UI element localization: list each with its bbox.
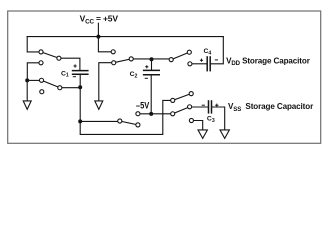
wire S8 throw to C3 minus <box>192 106 208 108</box>
wire S3 throw1 elbow from rail <box>98 37 111 52</box>
switch S4 contacts <box>169 50 192 66</box>
junction node GND1 <box>25 78 29 82</box>
capacitor C2 plates <box>143 70 160 74</box>
wire S3 throw2 elbow to ground 2 <box>99 63 112 101</box>
wire S1 throw2 to ground node <box>27 63 38 81</box>
ground GND1 left <box>23 101 31 109</box>
switch S8 contacts <box>171 105 194 123</box>
polarity marks C1 <box>73 64 77 76</box>
wire -5V branch up to S7 pole <box>163 100 171 114</box>
switch S6 contacts <box>118 112 140 127</box>
polarity marks C4 <box>200 59 218 62</box>
wire node GND1 to S2 throw1 <box>27 79 39 81</box>
ground GND3 under C3 switch <box>198 130 207 139</box>
switch S3 contacts <box>111 50 133 65</box>
wire S6 lever <box>120 121 138 125</box>
wire top VCC rail <box>27 36 223 38</box>
junction node C1 bottom <box>78 85 82 89</box>
wire S2 pole to C1 bottom node <box>60 87 80 89</box>
wire C2 top stub <box>151 59 153 70</box>
wire S7 lever <box>173 94 192 101</box>
wire S4 throw to C4 plus <box>192 63 206 65</box>
capacitor C1 plates <box>72 71 89 75</box>
switch S7 contacts <box>171 92 194 103</box>
svg-text:–5V: –5V <box>136 100 150 111</box>
wire C4 right to VCC rail <box>211 37 224 64</box>
switch S2 contacts <box>39 78 61 93</box>
wire ground stub left <box>26 80 28 101</box>
polarity marks C3 <box>202 104 219 107</box>
wire S2 lever <box>42 80 60 87</box>
wire VCC stub <box>97 23 99 36</box>
wire S3 pole to S4 pole <box>131 58 171 60</box>
junction node -5V <box>149 112 153 116</box>
ground GND2 middle <box>95 101 103 109</box>
wire left bus upper (rail to S1 throw1) <box>27 37 38 52</box>
wire S4 lever <box>171 52 189 59</box>
wire C1 bottom vertical, bottom link to -5V node <box>80 74 163 134</box>
border frame <box>8 11 321 143</box>
capacitor C3 plates <box>209 100 212 113</box>
switch S1 contacts <box>39 50 61 65</box>
wire S1 lever <box>41 52 59 58</box>
polarity marks C2 <box>145 65 149 78</box>
wire E contact to ground 3 <box>194 121 203 130</box>
wire S6 pole to C1 bottom node <box>80 120 117 122</box>
junction node VCC rail <box>96 35 100 39</box>
wire C2 bottom vertical to -5V node <box>150 75 152 114</box>
ground GND4 under VSS <box>220 130 229 139</box>
wire S3 lever <box>114 59 132 63</box>
junction node C2 top <box>150 57 154 61</box>
capacitor C4 plates <box>207 56 210 71</box>
wire S1 pole to C1 top <box>59 58 80 70</box>
wire S8 lever <box>173 107 190 114</box>
wire -5V node horizontal <box>140 113 170 115</box>
junction node S6 branch <box>78 119 82 123</box>
wire C3 right to VSS ground <box>212 107 225 130</box>
